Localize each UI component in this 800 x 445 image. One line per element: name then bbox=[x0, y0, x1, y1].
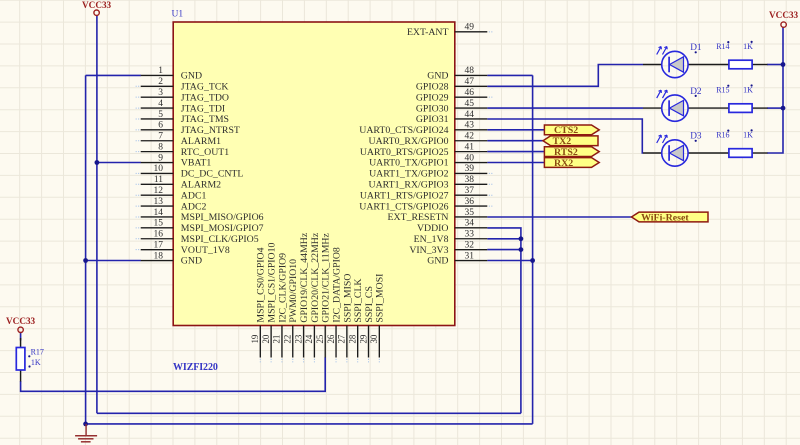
pin 20 end mark bbox=[270, 359, 272, 363]
wire pin48 GND bbox=[487, 74, 532, 76]
power symbol VCC33 (top left) bbox=[82, 0, 111, 15]
svg-text:UART1_RTS/GPIO27: UART1_RTS/GPIO27 bbox=[360, 190, 449, 201]
pin 46 end mark bbox=[489, 96, 493, 98]
pin 41 (UART0_RTS/GPIO25) bbox=[360, 142, 487, 157]
svg-text:VDDIO: VDDIO bbox=[417, 223, 449, 234]
junction pin31/GND vertical bbox=[530, 258, 535, 263]
pin 26 (I2C_DATA/GPIO8) bbox=[326, 247, 343, 357]
pin 19 (MSPI_CS0/GPIO4) bbox=[250, 247, 267, 357]
pin 3 (JTAG_TDO) bbox=[141, 88, 229, 103]
LED D1 bbox=[643, 43, 729, 77]
pin 1 (GND) bbox=[141, 66, 202, 81]
svg-text:VCC33: VCC33 bbox=[769, 10, 798, 20]
pin 24 end mark bbox=[313, 359, 315, 363]
svg-text:30: 30 bbox=[369, 334, 379, 343]
pin 9 (VBAT1) bbox=[141, 153, 212, 168]
svg-text:29: 29 bbox=[358, 334, 368, 343]
svg-text:JTAG_TMS: JTAG_TMS bbox=[181, 114, 229, 125]
pin 17 (VOUT_1V8) bbox=[141, 240, 230, 255]
svg-text:47: 47 bbox=[465, 77, 475, 87]
pin 28 (SSPI_CLK) bbox=[347, 278, 364, 357]
wire bottom GND horizontal bbox=[86, 423, 533, 425]
wire pin42 to TX2 bbox=[487, 140, 543, 142]
svg-text:SSPI_CS: SSPI_CS bbox=[364, 286, 375, 323]
svg-text:SSPI_CLK: SSPI_CLK bbox=[353, 278, 364, 322]
pin 49 EXT-ANT bbox=[407, 23, 487, 38]
svg-text:UART0_TX/GPIO1: UART0_TX/GPIO1 bbox=[369, 158, 449, 169]
power symbol VCC33 (top right) bbox=[769, 10, 798, 27]
wire pin44 to D3 bbox=[487, 119, 643, 153]
pin 16 (MSPI_CLK/GPIO5) bbox=[141, 230, 259, 245]
svg-text:8: 8 bbox=[158, 142, 163, 152]
svg-text:VCC33: VCC33 bbox=[82, 0, 111, 10]
pin 7 end mark bbox=[136, 140, 140, 142]
svg-text:15: 15 bbox=[154, 219, 164, 229]
svg-text:MSPI_CLK/GPIO5: MSPI_CLK/GPIO5 bbox=[181, 234, 259, 245]
svg-text:19: 19 bbox=[250, 334, 260, 343]
svg-text:UART1_CTS/GPIO26: UART1_CTS/GPIO26 bbox=[359, 201, 448, 212]
svg-text:ADC1: ADC1 bbox=[181, 190, 207, 201]
svg-text:46: 46 bbox=[465, 88, 475, 98]
svg-text:JTAG_NTRST: JTAG_NTRST bbox=[181, 125, 240, 136]
svg-text:45: 45 bbox=[465, 99, 475, 109]
pin 36 (UART1_CTS/GPIO26) bbox=[359, 197, 487, 212]
svg-text:VOUT_1V8: VOUT_1V8 bbox=[181, 245, 230, 256]
svg-text:11: 11 bbox=[154, 175, 163, 185]
wire pin18 GND bbox=[86, 260, 141, 262]
svg-text:10: 10 bbox=[154, 164, 164, 174]
svg-text:38: 38 bbox=[465, 175, 475, 185]
junction pin9/VCC33 bbox=[95, 160, 100, 165]
svg-text:1K: 1K bbox=[743, 42, 753, 51]
svg-text:CTS2: CTS2 bbox=[554, 125, 578, 136]
svg-text:21: 21 bbox=[272, 335, 282, 344]
LED D2 bbox=[643, 87, 729, 122]
pin 14 end mark bbox=[136, 216, 140, 218]
svg-text:13: 13 bbox=[154, 197, 164, 207]
pin 18 (GND) bbox=[141, 251, 202, 266]
pin 35 (EXT_RESETN) bbox=[388, 208, 488, 223]
svg-text:14: 14 bbox=[154, 208, 164, 218]
svg-text:34: 34 bbox=[465, 219, 475, 229]
pin 22 (PWM0/GPIO10) bbox=[283, 259, 300, 358]
pin 6 (JTAG_NTRST) bbox=[141, 121, 240, 136]
pin 7 (ALARM1) bbox=[141, 132, 221, 147]
svg-text:6: 6 bbox=[158, 121, 163, 131]
svg-text:23: 23 bbox=[293, 334, 303, 343]
pin 8 end mark bbox=[136, 151, 140, 153]
svg-text:UART0_CTS/GPIO24: UART0_CTS/GPIO24 bbox=[359, 125, 448, 136]
svg-text:R17: R17 bbox=[31, 348, 44, 357]
pin 17 end mark bbox=[136, 249, 140, 251]
svg-text:ALARM1: ALARM1 bbox=[181, 136, 221, 147]
pin 22 end mark bbox=[292, 359, 294, 363]
svg-text:32: 32 bbox=[465, 240, 475, 250]
wire VCC33 bottom horizontal bbox=[97, 412, 521, 414]
svg-text:1K: 1K bbox=[31, 358, 41, 367]
wire pin45 to D2 bbox=[487, 107, 643, 109]
svg-text:27: 27 bbox=[337, 334, 347, 343]
svg-text:MSPI_MISO/GPIO6: MSPI_MISO/GPIO6 bbox=[181, 212, 264, 223]
svg-text:WiFi-Reset: WiFi-Reset bbox=[641, 212, 689, 223]
pin 45 (GPIO30) bbox=[416, 99, 487, 114]
svg-text:GPIO30: GPIO30 bbox=[416, 103, 449, 114]
wire R14 to VCC bus bbox=[767, 64, 783, 66]
pin 12 (ADC1) bbox=[141, 186, 207, 201]
pin 33 (EN_1V8) bbox=[414, 230, 488, 245]
junction pin18/GND bus bbox=[83, 258, 88, 263]
wire VCC33 left vertical bbox=[96, 15, 98, 413]
pin 44 (GPIO31) bbox=[416, 110, 487, 125]
wire left GND vertical bus bbox=[85, 75, 87, 424]
svg-text:VIN_3V3: VIN_3V3 bbox=[409, 245, 448, 256]
svg-text:12: 12 bbox=[154, 186, 164, 196]
pin 10 end mark bbox=[136, 172, 140, 174]
junction pin32/VCC riser bbox=[519, 247, 524, 252]
pin 28 end mark bbox=[357, 359, 359, 363]
svg-text:40: 40 bbox=[465, 153, 475, 163]
junction R15/VCC vertical bbox=[781, 106, 786, 111]
svg-text:GPIO19/CLK_44MHz: GPIO19/CLK_44MHz bbox=[299, 232, 310, 322]
svg-text:GPIO21/CLK_11MHz: GPIO21/CLK_11MHz bbox=[321, 233, 332, 323]
svg-text:GND: GND bbox=[427, 71, 448, 82]
wire VCC33 right riser bbox=[487, 228, 521, 413]
svg-text:16: 16 bbox=[154, 230, 164, 240]
svg-text:RTC_OUT1: RTC_OUT1 bbox=[181, 147, 229, 158]
pin 21 end mark bbox=[281, 359, 283, 363]
svg-text:R14: R14 bbox=[716, 42, 729, 51]
port TX2 bbox=[543, 136, 598, 147]
svg-text:I2C_DATA/GPIO8: I2C_DATA/GPIO8 bbox=[331, 247, 342, 323]
svg-text:36: 36 bbox=[465, 197, 475, 207]
pin 12 end mark bbox=[136, 194, 140, 196]
pin 40 (UART0_TX/GPIO1) bbox=[369, 153, 487, 168]
svg-text:24: 24 bbox=[304, 334, 314, 343]
pin 30 (SSPI_MOSI) bbox=[369, 274, 386, 358]
svg-text:TX2: TX2 bbox=[553, 136, 572, 147]
svg-text:VCC33: VCC33 bbox=[6, 316, 35, 326]
pin 26 end mark bbox=[335, 359, 337, 363]
svg-text:GND: GND bbox=[427, 256, 448, 267]
svg-text:4: 4 bbox=[158, 99, 163, 109]
port CTS2 bbox=[544, 125, 599, 136]
resistor R16 1K bbox=[716, 129, 767, 157]
svg-text:1K: 1K bbox=[743, 86, 753, 95]
pin 39 (UART1_TX/GPIO2) bbox=[369, 164, 487, 179]
pin 6 end mark bbox=[136, 129, 140, 131]
svg-text:ADC2: ADC2 bbox=[181, 201, 207, 212]
pin 34 (VDDIO) bbox=[417, 219, 487, 234]
pin 37 end mark bbox=[489, 194, 493, 196]
svg-text:GPIO31: GPIO31 bbox=[416, 114, 449, 125]
svg-text:UART1_TX/GPIO2: UART1_TX/GPIO2 bbox=[369, 169, 449, 180]
pin 8 (RTC_OUT1) bbox=[141, 142, 230, 157]
port WiFi-Reset bbox=[632, 212, 709, 223]
pin 38 end mark bbox=[489, 183, 493, 185]
pin 13 (ADC2) bbox=[141, 197, 207, 212]
ground symbol bbox=[75, 424, 97, 442]
svg-text:37: 37 bbox=[465, 186, 475, 196]
resistor R17 1K bbox=[16, 338, 44, 382]
pin 5 end mark bbox=[136, 118, 140, 120]
svg-text:18: 18 bbox=[154, 251, 164, 261]
wire pin41 to RTS2 bbox=[487, 151, 544, 153]
pin 4 end mark bbox=[136, 107, 140, 109]
pin 49 end mark bbox=[489, 31, 493, 33]
svg-text:33: 33 bbox=[465, 230, 475, 240]
resistor R14 1K bbox=[716, 41, 767, 69]
pin 13 end mark bbox=[136, 205, 140, 207]
pin 31 (GND) bbox=[427, 251, 487, 266]
pin 23 (GPIO19/CLK_44MHz) bbox=[293, 232, 310, 357]
svg-text:U1: U1 bbox=[172, 10, 184, 20]
wire pin33 EN_1V8 bbox=[487, 238, 521, 240]
svg-text:JTAG_TDI: JTAG_TDI bbox=[181, 103, 225, 114]
pin 37 (UART1_RTS/GPIO27) bbox=[360, 186, 487, 201]
pin 16 end mark bbox=[136, 238, 140, 240]
svg-text:R15: R15 bbox=[716, 86, 729, 95]
resistor R15 1K bbox=[716, 84, 767, 112]
svg-text:UART0_RTS/GPIO25: UART0_RTS/GPIO25 bbox=[360, 147, 449, 158]
pin 47 (GPIO28) bbox=[416, 77, 487, 92]
svg-text:GND: GND bbox=[181, 71, 202, 82]
pin 32 (VIN_3V3) bbox=[409, 240, 487, 255]
pin 27 end mark bbox=[346, 359, 348, 363]
pin 19 end mark bbox=[259, 359, 261, 363]
svg-text:VBAT1: VBAT1 bbox=[181, 158, 212, 169]
pin 30 end mark bbox=[378, 359, 380, 363]
pin 29 end mark bbox=[368, 359, 370, 363]
junction pin33/VCC riser bbox=[519, 236, 524, 241]
pin 10 (DC_DC_CNTL) bbox=[141, 164, 244, 179]
pin 2 (JTAG_TCK) bbox=[141, 77, 229, 92]
wire pin32 VIN_3V3 bbox=[487, 249, 521, 251]
svg-text:PWM0/GPIO10: PWM0/GPIO10 bbox=[288, 259, 299, 323]
svg-text:39: 39 bbox=[465, 164, 475, 174]
svg-text:3: 3 bbox=[158, 88, 163, 98]
svg-text:9: 9 bbox=[158, 153, 163, 163]
svg-text:1K: 1K bbox=[743, 131, 753, 140]
svg-text:DC_DC_CNTL: DC_DC_CNTL bbox=[181, 169, 244, 180]
svg-text:ALARM2: ALARM2 bbox=[181, 180, 221, 191]
pin 29 (SSPI_CS) bbox=[358, 286, 375, 357]
svg-text:42: 42 bbox=[465, 132, 475, 142]
pin 27 (SSPI_MISO) bbox=[337, 274, 354, 358]
svg-text:EXT_RESETN: EXT_RESETN bbox=[388, 212, 449, 223]
pin 36 end mark bbox=[489, 205, 493, 207]
svg-text:44: 44 bbox=[465, 110, 475, 120]
svg-text:GPIO29: GPIO29 bbox=[416, 92, 449, 103]
svg-text:WIZFI220: WIZFI220 bbox=[173, 362, 218, 373]
svg-text:GND: GND bbox=[181, 256, 202, 267]
svg-text:EXT-ANT: EXT-ANT bbox=[407, 27, 449, 38]
pin 15 (MSPI_MOSI/GPIO7) bbox=[141, 219, 264, 234]
junction R14/VCC vertical bbox=[781, 62, 786, 67]
pin 15 end mark bbox=[136, 227, 140, 229]
wire R17 top bbox=[20, 333, 22, 341]
svg-text:RTS2: RTS2 bbox=[554, 147, 578, 158]
svg-text:MSPI_CS1/GPIO10: MSPI_CS1/GPIO10 bbox=[267, 242, 278, 322]
svg-text:1: 1 bbox=[158, 66, 163, 76]
pin 4 (JTAG_TDI) bbox=[141, 99, 225, 114]
wire pin1 GND to left bus bbox=[86, 74, 141, 76]
svg-text:49: 49 bbox=[465, 23, 475, 33]
wire pin9 VBAT1 bbox=[97, 162, 141, 164]
pin 23 end mark bbox=[303, 359, 305, 363]
junction GND bus corner bbox=[83, 422, 88, 427]
svg-text:31: 31 bbox=[465, 251, 475, 261]
pin 42 (UART0_RX/GPIO0) bbox=[369, 132, 488, 147]
svg-text:2: 2 bbox=[158, 77, 163, 87]
pin 39 end mark bbox=[489, 172, 493, 174]
svg-text:43: 43 bbox=[465, 121, 475, 131]
svg-text:5: 5 bbox=[158, 110, 163, 120]
svg-text:28: 28 bbox=[347, 334, 357, 343]
wire R17 bottom to pin25 bbox=[21, 357, 326, 391]
svg-text:35: 35 bbox=[465, 208, 475, 218]
pin 25 (GPIO21/CLK_11MHz) bbox=[315, 233, 332, 358]
svg-text:41: 41 bbox=[465, 142, 475, 152]
svg-text:EN_1V8: EN_1V8 bbox=[414, 234, 449, 245]
wire pin47 to D1 bbox=[487, 65, 643, 87]
LED D3 bbox=[643, 132, 729, 167]
op-amp-style IC body U1 (WIZFI220 module) bbox=[173, 22, 455, 326]
pin 3 end mark bbox=[136, 96, 140, 98]
wire pin35 EXT_RESETN to port bbox=[487, 216, 631, 218]
wire pin31 GND bbox=[487, 260, 532, 262]
svg-text:JTAG_TDO: JTAG_TDO bbox=[181, 92, 229, 103]
svg-text:MSPI_MOSI/GPIO7: MSPI_MOSI/GPIO7 bbox=[181, 223, 264, 234]
svg-text:SSPI_MOSI: SSPI_MOSI bbox=[375, 274, 386, 323]
pin 11 (ALARM2) bbox=[141, 175, 221, 190]
pin 46 (GPIO29) bbox=[416, 88, 487, 103]
pin 21 (I2C_CLK/GPIO9) bbox=[272, 253, 289, 358]
pin 11 end mark bbox=[136, 183, 140, 185]
pin 48 (GND) bbox=[427, 66, 487, 81]
wire right GND vertical bbox=[532, 75, 534, 424]
pin 38 (UART1_RX/GPIO3) bbox=[369, 175, 488, 190]
svg-text:7: 7 bbox=[158, 132, 163, 142]
svg-text:SSPI_MISO: SSPI_MISO bbox=[342, 274, 353, 323]
svg-text:I2C_CLK/GPIO9: I2C_CLK/GPIO9 bbox=[277, 253, 288, 323]
svg-text:48: 48 bbox=[465, 66, 475, 76]
pin 43 (UART0_CTS/GPIO24) bbox=[359, 121, 487, 136]
svg-text:MSPI_CS0/GPIO4: MSPI_CS0/GPIO4 bbox=[256, 247, 267, 322]
port RTS2 bbox=[544, 147, 599, 158]
pin 5 (JTAG_TMS) bbox=[141, 110, 229, 125]
svg-text:25: 25 bbox=[315, 334, 325, 343]
svg-text:GPIO20/CLK_22MHz: GPIO20/CLK_22MHz bbox=[310, 232, 321, 322]
svg-text:RX2: RX2 bbox=[554, 158, 573, 169]
wire pin40 to RX2 bbox=[487, 162, 544, 164]
power symbol VCC33 (bottom left, R17) bbox=[6, 316, 35, 332]
svg-text:26: 26 bbox=[326, 334, 336, 343]
wire pin43 to CTS2 bbox=[487, 129, 544, 131]
svg-text:R16: R16 bbox=[716, 130, 729, 139]
pin 2 end mark bbox=[136, 85, 140, 87]
svg-text:17: 17 bbox=[154, 240, 164, 250]
svg-text:GPIO28: GPIO28 bbox=[416, 81, 449, 92]
svg-text:UART0_RX/GPIO0: UART0_RX/GPIO0 bbox=[369, 136, 449, 147]
pin 24 (GPIO20/CLK_22MHz) bbox=[304, 232, 321, 357]
svg-text:JTAG_TCK: JTAG_TCK bbox=[181, 81, 229, 92]
pin 14 (MSPI_MISO/GPIO6) bbox=[141, 208, 264, 223]
wire VCC33 right vertical bbox=[767, 27, 783, 153]
port RX2 bbox=[544, 158, 599, 169]
pin 20 (MSPI_CS1/GPIO10) bbox=[261, 242, 278, 357]
wire R15 to VCC bus bbox=[767, 107, 783, 109]
svg-text:22: 22 bbox=[283, 335, 293, 344]
svg-text:UART1_RX/GPIO3: UART1_RX/GPIO3 bbox=[369, 180, 449, 191]
svg-text:20: 20 bbox=[261, 334, 271, 343]
